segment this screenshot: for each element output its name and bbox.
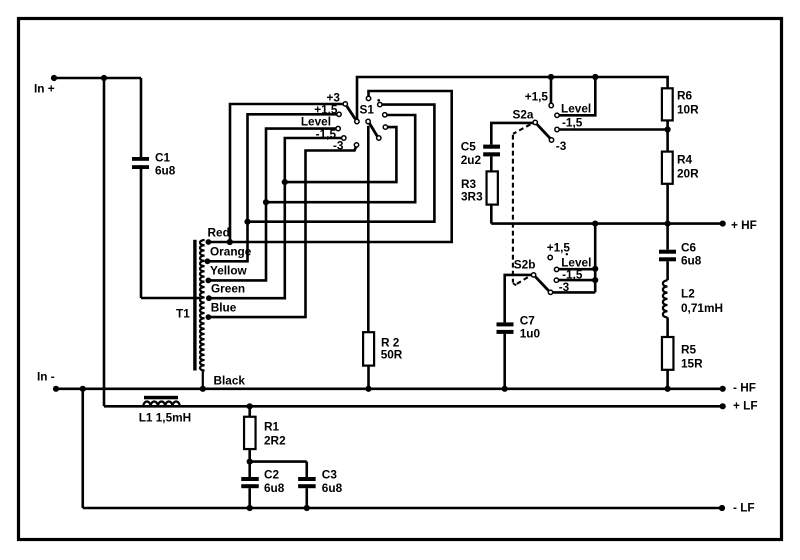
svg-text:C6: C6 xyxy=(681,241,697,255)
svg-text:C1: C1 xyxy=(155,151,171,165)
svg-text:1u0: 1u0 xyxy=(520,327,541,341)
svg-text:C3: C3 xyxy=(322,468,338,482)
svg-text:T1: T1 xyxy=(176,307,190,321)
svg-text:Orange: Orange xyxy=(210,245,252,259)
svg-text:S2a: S2a xyxy=(513,107,534,121)
svg-text:6u8: 6u8 xyxy=(264,481,285,495)
svg-text:Level: Level xyxy=(561,102,591,116)
svg-text:6u8: 6u8 xyxy=(681,254,702,268)
svg-text:Blue: Blue xyxy=(211,301,237,315)
svg-text:L1 1,5mH: L1 1,5mH xyxy=(139,411,191,425)
svg-text:In +: In + xyxy=(34,82,55,96)
svg-text:C2: C2 xyxy=(264,468,280,482)
svg-text:50R: 50R xyxy=(381,348,403,362)
svg-text:C7: C7 xyxy=(520,314,536,328)
svg-text:-1,5: -1,5 xyxy=(562,116,583,130)
svg-text:10R: 10R xyxy=(677,102,699,116)
svg-text:+ HF: + HF xyxy=(731,218,757,232)
svg-text:R5: R5 xyxy=(681,343,697,357)
svg-text:6u8: 6u8 xyxy=(155,164,176,178)
svg-text:+ LF: + LF xyxy=(733,399,758,413)
svg-text:+1,5: +1,5 xyxy=(547,240,571,254)
svg-text:- LF: - LF xyxy=(733,501,755,515)
svg-text:In -: In - xyxy=(37,370,55,384)
svg-text:- HF: - HF xyxy=(733,381,756,395)
svg-text:Green: Green xyxy=(211,282,245,296)
svg-text:-3: -3 xyxy=(556,139,567,153)
svg-text:2R2: 2R2 xyxy=(264,434,286,448)
svg-text:3R3: 3R3 xyxy=(461,190,483,204)
svg-text:R6: R6 xyxy=(677,89,693,103)
svg-text:Red: Red xyxy=(208,226,230,240)
svg-text:Yellow: Yellow xyxy=(210,264,248,278)
svg-text:6u8: 6u8 xyxy=(322,481,343,495)
svg-text:0,71mH: 0,71mH xyxy=(681,301,723,315)
svg-text:2u2: 2u2 xyxy=(461,153,482,167)
svg-text:S2b: S2b xyxy=(514,258,536,272)
svg-text:15R: 15R xyxy=(681,357,703,371)
svg-text:S1: S1 xyxy=(360,103,375,117)
svg-text:-3: -3 xyxy=(333,139,344,153)
svg-text:+1,5: +1,5 xyxy=(525,90,549,104)
svg-text:R4: R4 xyxy=(677,153,693,167)
svg-text:Black: Black xyxy=(214,374,246,388)
svg-text:R1: R1 xyxy=(264,420,280,434)
svg-text:L2: L2 xyxy=(681,287,695,301)
svg-text:20R: 20R xyxy=(677,166,699,180)
svg-text:C5: C5 xyxy=(461,140,477,154)
svg-text:-3: -3 xyxy=(559,280,570,294)
